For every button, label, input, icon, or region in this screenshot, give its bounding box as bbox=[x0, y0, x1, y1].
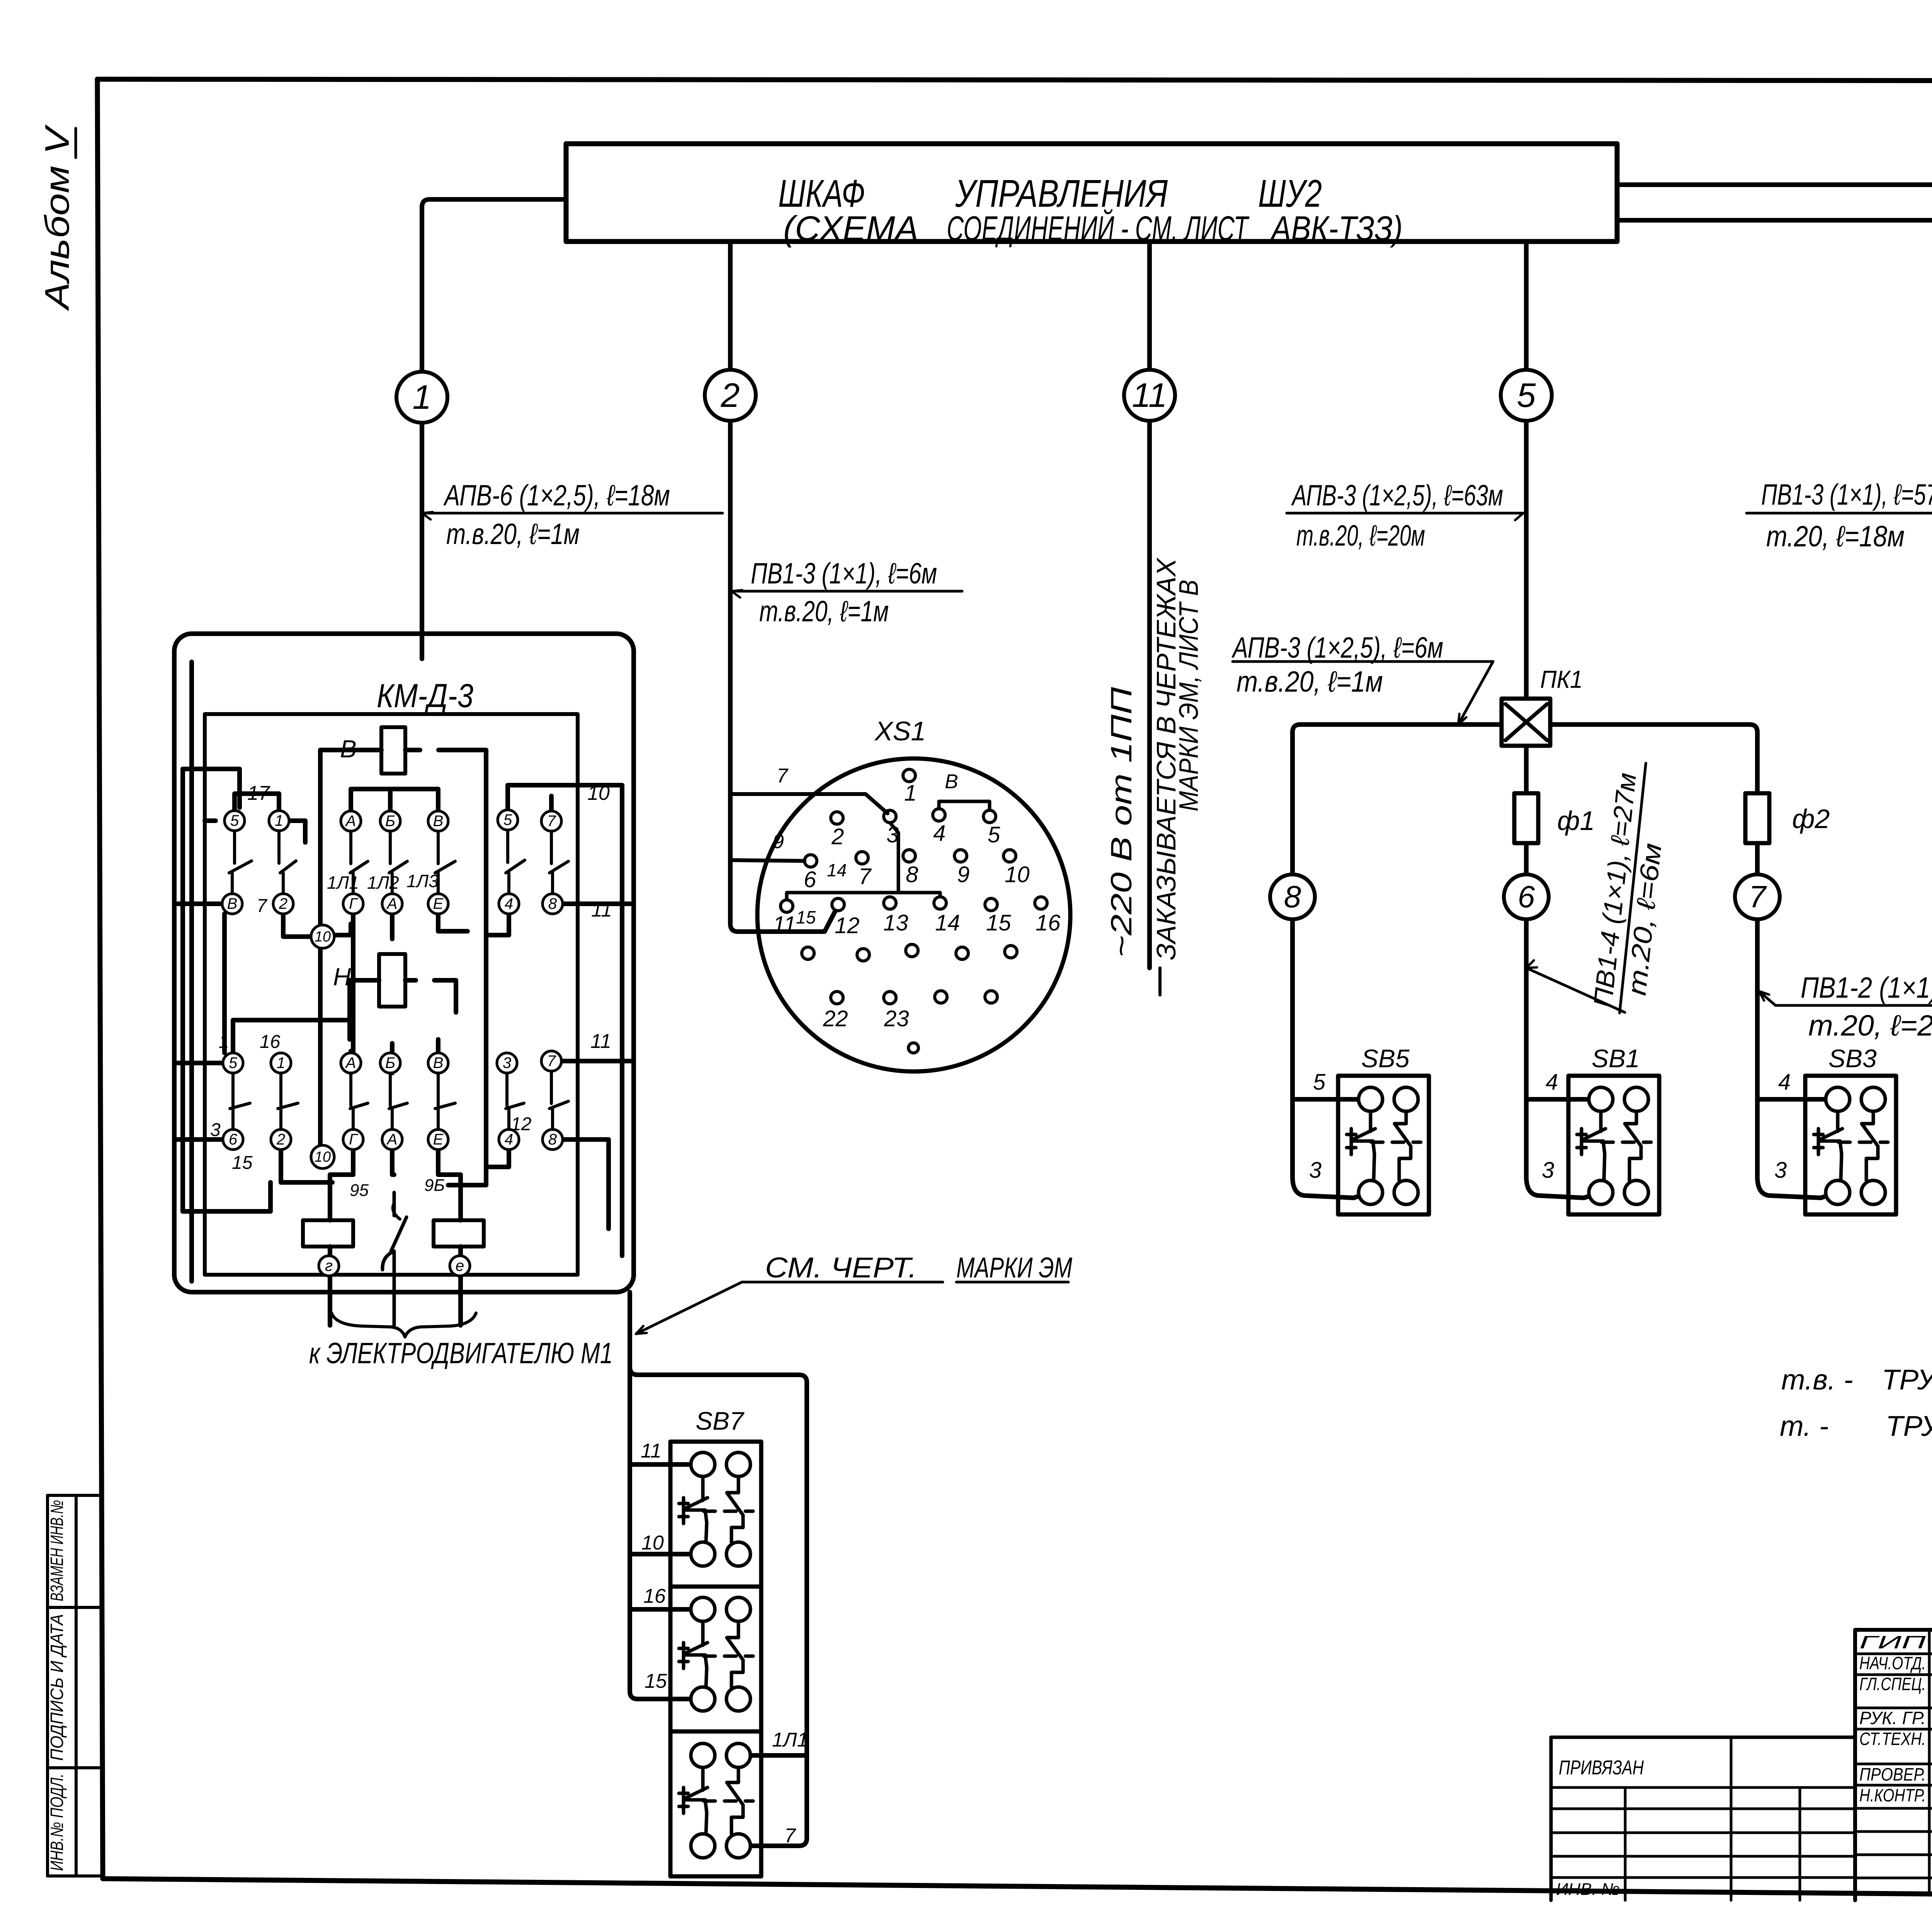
svg-text:т.20, ℓ=18м: т.20, ℓ=18м bbox=[1766, 520, 1905, 553]
svg-text:ИНВ. №: ИНВ. № bbox=[1556, 1880, 1620, 1899]
svg-text:7: 7 bbox=[784, 1825, 796, 1847]
svg-text:1: 1 bbox=[413, 378, 432, 416]
svg-text:4: 4 bbox=[1778, 1070, 1791, 1095]
svg-text:т.в.20, ℓ=1м: т.в.20, ℓ=1м bbox=[759, 595, 889, 628]
svg-text:ПК1: ПК1 bbox=[1540, 665, 1583, 693]
svg-text:11: 11 bbox=[773, 912, 796, 937]
svg-text:ИНВ.№ ПОДЛ.: ИНВ.№ ПОДЛ. bbox=[47, 1774, 67, 1871]
svg-text:А: А bbox=[345, 1054, 356, 1071]
svg-text:СТ.ТЕХН.: СТ.ТЕХН. bbox=[1859, 1729, 1926, 1749]
svg-text:АПВ-3 (1×2,5), ℓ=6м: АПВ-3 (1×2,5), ℓ=6м bbox=[1231, 631, 1443, 664]
svg-text:2: 2 bbox=[831, 824, 844, 849]
svg-text:т.в.20, ℓ=20м: т.в.20, ℓ=20м bbox=[1296, 519, 1425, 552]
svg-text:Альбом V: Альбом V bbox=[38, 124, 76, 311]
svg-text:1: 1 bbox=[275, 812, 283, 829]
svg-text:22: 22 bbox=[823, 1006, 848, 1031]
svg-text:НАЧ.ОТД.: НАЧ.ОТД. bbox=[1859, 1653, 1926, 1673]
svg-text:1: 1 bbox=[219, 1032, 229, 1052]
svg-text:ГИП: ГИП bbox=[1859, 1632, 1926, 1652]
svg-text:5: 5 bbox=[230, 812, 239, 829]
svg-text:ТРУБА: ТРУБА bbox=[1882, 1364, 1932, 1396]
svg-text:8: 8 bbox=[548, 1131, 557, 1148]
svg-text:В: В bbox=[227, 895, 238, 912]
svg-text:7: 7 bbox=[547, 813, 556, 830]
svg-text:10: 10 bbox=[587, 782, 610, 804]
svg-text:(СХЕМА: (СХЕМА bbox=[783, 209, 918, 248]
svg-text:15: 15 bbox=[986, 910, 1011, 935]
svg-text:1: 1 bbox=[277, 1054, 285, 1071]
svg-text:РУК. ГР.: РУК. ГР. bbox=[1859, 1708, 1926, 1728]
svg-text:ГЛ.СПЕЦ.: ГЛ.СПЕЦ. bbox=[1859, 1674, 1926, 1694]
svg-text:А: А bbox=[386, 895, 398, 912]
svg-text:2: 2 bbox=[276, 1131, 285, 1148]
svg-text:В: В bbox=[433, 1054, 444, 1071]
svg-text:е: е bbox=[456, 1257, 464, 1274]
svg-text:4: 4 bbox=[1546, 1070, 1558, 1095]
svg-text:23: 23 bbox=[884, 1006, 909, 1031]
svg-text:т.20, ℓ=20м: т.20, ℓ=20м bbox=[1808, 1009, 1932, 1042]
svg-text:10: 10 bbox=[315, 929, 331, 945]
svg-text:т.в. -: т.в. - bbox=[1781, 1364, 1853, 1396]
svg-text:5: 5 bbox=[1313, 1070, 1326, 1095]
svg-text:ПРОВЕР.: ПРОВЕР. bbox=[1859, 1764, 1926, 1784]
svg-text:В: В bbox=[945, 770, 958, 793]
svg-text:1Л2: 1Л2 bbox=[367, 872, 399, 893]
svg-text:SB3: SB3 bbox=[1828, 1044, 1877, 1073]
svg-text:8: 8 bbox=[906, 862, 918, 887]
svg-text:7: 7 bbox=[257, 896, 268, 916]
svg-text:т.в.20, ℓ=1м: т.в.20, ℓ=1м bbox=[1236, 665, 1383, 698]
svg-text:ПВ1-2 (1×1), ℓ=42м: ПВ1-2 (1×1), ℓ=42м bbox=[1801, 971, 1932, 1004]
svg-text:к ЭЛЕКТРОДВИГАТЕЛЮ М1: к ЭЛЕКТРОДВИГАТЕЛЮ М1 bbox=[309, 1337, 613, 1370]
svg-text:5: 5 bbox=[503, 811, 512, 828]
svg-text:12: 12 bbox=[511, 1114, 531, 1134]
svg-text:14: 14 bbox=[827, 860, 847, 880]
svg-text:г: г bbox=[325, 1257, 333, 1274]
svg-text:10: 10 bbox=[641, 1532, 664, 1554]
svg-text:3: 3 bbox=[1542, 1158, 1554, 1183]
svg-text:7: 7 bbox=[547, 1053, 556, 1070]
svg-text:3: 3 bbox=[1774, 1158, 1787, 1183]
svg-text:3: 3 bbox=[1309, 1158, 1321, 1183]
svg-text:АПВ-6 (1×2,5), ℓ=18м: АПВ-6 (1×2,5), ℓ=18м bbox=[443, 479, 670, 512]
svg-text:1Л3: 1Л3 bbox=[406, 871, 439, 891]
svg-text:ПРИВЯЗАН: ПРИВЯЗАН bbox=[1559, 1757, 1644, 1779]
svg-text:ф2: ф2 bbox=[1792, 804, 1830, 834]
svg-text:ф1: ф1 bbox=[1557, 806, 1595, 836]
svg-text:11: 11 bbox=[591, 899, 612, 921]
svg-text:~220 В от 1ПП: ~220 В от 1ПП bbox=[1105, 687, 1138, 957]
svg-text:ПВ1-3 (1×1), ℓ=57м: ПВ1-3 (1×1), ℓ=57м bbox=[1761, 478, 1932, 511]
svg-text:Е: Е bbox=[433, 1131, 444, 1148]
svg-text:11: 11 bbox=[590, 1030, 611, 1053]
svg-text:Г: Г bbox=[349, 1131, 359, 1148]
svg-text:15: 15 bbox=[232, 1153, 253, 1173]
svg-text:Н.КОНТР.: Н.КОНТР. bbox=[1859, 1785, 1926, 1805]
svg-text:4: 4 bbox=[505, 895, 513, 912]
svg-text:10: 10 bbox=[1005, 862, 1030, 887]
svg-text:SB1: SB1 bbox=[1592, 1044, 1640, 1073]
svg-text:ТРУБА: ТРУБА bbox=[1886, 1410, 1932, 1442]
svg-text:Е: Е bbox=[433, 895, 444, 912]
svg-text:9Б: 9Б bbox=[424, 1176, 445, 1195]
svg-text:9: 9 bbox=[957, 862, 969, 887]
svg-text:МАРКИ ЭМ: МАРКИ ЭМ bbox=[956, 1252, 1072, 1284]
svg-text:5: 5 bbox=[988, 822, 1000, 847]
svg-text:УПРАВЛЕНИЯ: УПРАВЛЕНИЯ bbox=[955, 172, 1168, 215]
svg-text:SB5: SB5 bbox=[1361, 1044, 1410, 1073]
svg-text:7: 7 bbox=[859, 864, 872, 889]
svg-text:2: 2 bbox=[721, 376, 740, 414]
svg-text:Г: Г bbox=[349, 895, 359, 912]
svg-text:5: 5 bbox=[229, 1054, 238, 1071]
svg-text:СМ. ЧЕРТ.: СМ. ЧЕРТ. bbox=[765, 1252, 917, 1284]
svg-text:10: 10 bbox=[315, 1149, 331, 1165]
svg-text:15: 15 bbox=[796, 907, 816, 927]
svg-text:1Л1: 1Л1 bbox=[327, 872, 359, 893]
svg-text:12: 12 bbox=[835, 913, 860, 938]
svg-text:ШУ2: ШУ2 bbox=[1258, 172, 1322, 215]
svg-text:Б: Б bbox=[385, 813, 395, 830]
svg-text:Б: Б bbox=[385, 1054, 395, 1071]
svg-text:АВК-ТЗЗ): АВК-ТЗЗ) bbox=[1270, 209, 1403, 248]
svg-text:17: 17 bbox=[247, 782, 270, 804]
svg-text:8: 8 bbox=[1284, 879, 1301, 914]
svg-text:XS1: XS1 bbox=[874, 716, 926, 746]
svg-text:6: 6 bbox=[804, 867, 816, 892]
svg-text:16: 16 bbox=[643, 1585, 666, 1607]
svg-text:2: 2 bbox=[279, 895, 287, 912]
svg-text:3: 3 bbox=[503, 1054, 511, 1071]
svg-text:16: 16 bbox=[1036, 910, 1061, 935]
svg-text:АПВ-3 (1×2,5), ℓ=63м: АПВ-3 (1×2,5), ℓ=63м bbox=[1291, 479, 1503, 512]
svg-text:А: А bbox=[386, 1131, 398, 1148]
svg-text:ШКАФ: ШКАФ bbox=[778, 172, 865, 215]
svg-text:ПВ1-3 (1×1), ℓ=6м: ПВ1-3 (1×1), ℓ=6м bbox=[751, 557, 937, 590]
svg-text:SB7: SB7 bbox=[696, 1406, 745, 1435]
svg-text:1: 1 bbox=[904, 781, 917, 806]
svg-text:95: 95 bbox=[350, 1181, 369, 1200]
svg-text:МАРКИ ЭМ, ЛИСТ В: МАРКИ ЭМ, ЛИСТ В bbox=[1173, 580, 1204, 811]
svg-text:16: 16 bbox=[260, 1032, 281, 1052]
svg-text:В: В bbox=[433, 813, 444, 830]
svg-text:14: 14 bbox=[935, 910, 960, 935]
svg-text:7: 7 bbox=[1749, 879, 1767, 914]
svg-text:11: 11 bbox=[641, 1440, 662, 1462]
svg-text:7: 7 bbox=[777, 765, 789, 787]
svg-text:11: 11 bbox=[1132, 376, 1167, 414]
svg-text:13: 13 bbox=[883, 910, 908, 935]
svg-text:ПОДПИСЬ И ДАТА: ПОДПИСЬ И ДАТА bbox=[47, 1614, 67, 1761]
svg-text:4: 4 bbox=[933, 821, 946, 846]
svg-text:5: 5 bbox=[1517, 376, 1536, 414]
svg-text:6: 6 bbox=[1518, 879, 1535, 914]
svg-text:15: 15 bbox=[645, 1670, 667, 1692]
svg-text:1Л1: 1Л1 bbox=[772, 1729, 808, 1751]
svg-text:8: 8 bbox=[548, 895, 557, 912]
svg-text:СОЕДИНЕНИЙ - СМ. ЛИСТ: СОЕДИНЕНИЙ - СМ. ЛИСТ bbox=[947, 209, 1250, 248]
svg-text:6: 6 bbox=[229, 1131, 238, 1148]
svg-text:т.в.20, ℓ=1м: т.в.20, ℓ=1м bbox=[446, 518, 580, 551]
svg-text:ВЗАМЕН ИНВ.№: ВЗАМЕН ИНВ.№ bbox=[47, 1500, 67, 1601]
svg-text:9: 9 bbox=[773, 830, 784, 853]
svg-text:КМ-Д-3: КМ-Д-3 bbox=[377, 677, 473, 714]
svg-text:т. -: т. - bbox=[1780, 1410, 1829, 1442]
svg-text:А: А bbox=[345, 813, 356, 830]
svg-text:3: 3 bbox=[210, 1120, 221, 1140]
